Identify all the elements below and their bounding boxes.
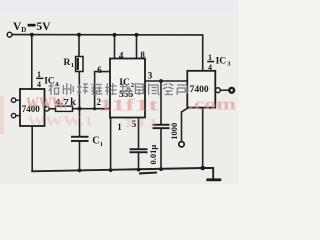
IC3 7400 box [187,71,215,108]
watermark gray CJK pseudo-glyphs [49,83,188,95]
svg-text:5V: 5V [36,21,51,33]
svg-text:1000: 1000 [169,123,179,140]
svg-text:1: 1 [100,141,103,148]
svg-text:4: 4 [208,63,212,72]
resistor 4.7k [56,106,73,111]
resistor R1 [76,57,83,72]
wire: C1 bottom [79,142,81,171]
capacitor 0.01u [130,148,148,150]
node: ground rail IC3 [200,166,205,171]
node: rail junction pin8 [135,33,139,37]
svg-text:4: 4 [37,80,41,89]
wire: 555 pin8 drop [136,35,138,59]
svg-text:1: 1 [71,62,74,69]
IC1 input terminal B [11,113,15,117]
node: ground rail pin1 [109,168,113,172]
wire: 555 pin4 drop [114,35,116,59]
svg-text:C: C [92,136,99,147]
svg-text:IC: IC [216,57,227,67]
wire: R1 top drop [78,35,80,57]
terminal: IC3 lower output [179,142,184,147]
terminal VD [7,32,12,37]
scan artifact left margin [0,96,4,134]
node: rail junction IC1 [30,33,34,37]
svg-text:k: k [70,97,76,108]
svg-text:111: 111 [122,115,160,130]
wire: 4.7k to 555 pin2 [73,108,111,110]
wire: IC3 lower output lead [182,108,189,142]
wire: 1000p cap bottom [160,129,162,169]
IC1 input terminal A [11,98,15,102]
node: pin3 output junction [159,79,163,83]
wire: IC1 output to resistor [49,108,55,110]
IC3 output bubble [216,88,221,93]
svg-text:3: 3 [148,70,153,80]
svg-text:8: 8 [140,50,145,60]
svg-text:D: D [21,26,26,34]
svg-text:R: R [64,58,71,68]
capacitor 1000p [153,124,170,126]
svg-text:WWW.1: WWW.1 [27,115,93,130]
node: R1/C1/pin2 junction [78,107,82,111]
wire: IC1 top drop [31,35,33,89]
node: rail junction pin4 [113,33,117,37]
node: ground rail 0.01u [137,168,141,172]
node: rail junction R1 [77,33,81,37]
wire: 555 pin3 output [145,80,187,82]
IC1 7400 box [20,89,45,126]
ground [206,178,221,181]
wire: R1 bottom to node [78,72,80,109]
wire: 0.01u cap bottom [138,153,140,170]
node: ground rail C1 [78,169,82,173]
wire: C1 top [79,109,81,136]
wire: 1000p cap top [160,81,162,123]
node: pin6 riser junction [93,107,96,110]
svg-text:6: 6 [97,65,102,75]
svg-text:WWW.: WWW. [26,94,67,113]
IC1 output bubble [45,107,50,112]
op 555 box U2 [110,59,145,118]
svg-text:2: 2 [131,82,134,89]
capacitor C1 [71,136,89,138]
node: ground rail 1000p [159,167,163,171]
svg-text:11f1t: 11f1t [99,96,159,115]
wire: bottom ground rail [32,168,213,178]
wire: 555 pin1 to ground [110,118,112,171]
wire: IC3 output [220,89,229,91]
svg-text:7400: 7400 [190,85,209,95]
wire: IC3 bottom to ground [202,108,204,168]
svg-text:0.01μ: 0.01μ [148,145,158,165]
wire: top VDD rail [12,35,203,71]
svg-text:4: 4 [119,51,124,61]
svg-text:IC: IC [44,77,55,87]
wire: 555 pin6 link [95,72,110,109]
wire: IC1 bottom to ground rail [31,126,33,171]
terminal: IC3 output [229,88,234,93]
wire: 555 pin5 drop [138,118,140,148]
svg-text:.com: .com [188,95,236,114]
